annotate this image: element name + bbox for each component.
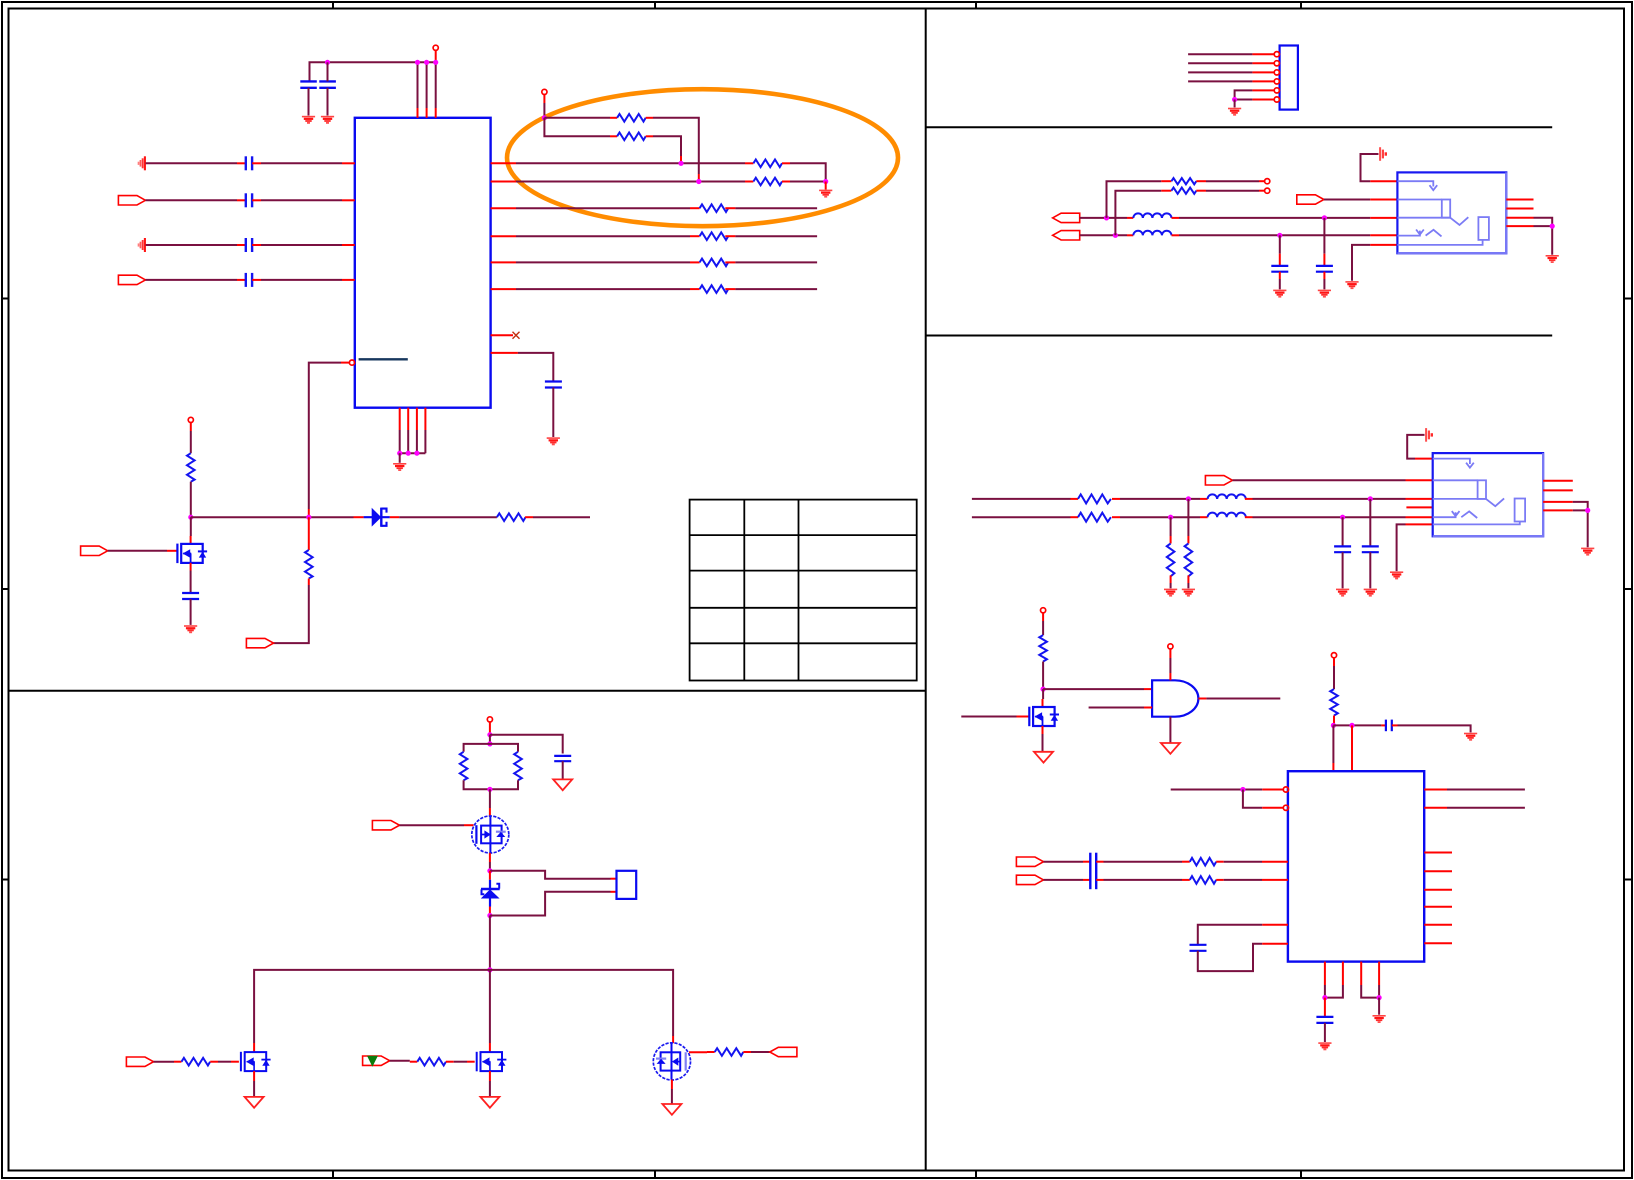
pin stub U5 top pin1	[1332, 763, 1334, 771]
resistor R2	[617, 133, 646, 141]
wire R23 upper	[1042, 621, 1044, 635]
wire VIN to fuse loop	[489, 735, 491, 744]
wire R15 to Q4 gate	[454, 1061, 467, 1063]
wire R21 pulldown feed	[1187, 499, 1189, 536]
wire enable to MOSFET node	[309, 363, 341, 509]
pin stub L1a right	[1172, 217, 1180, 219]
pin stub U5 io6	[1424, 942, 1452, 944]
capacitor C1	[300, 81, 317, 87]
wire C2 to ground	[327, 88, 329, 116]
pin circle U5 left 2	[1283, 805, 1288, 810]
wire port to U3 pin2	[1233, 479, 1406, 481]
junction U3 right gnd	[1585, 508, 1590, 513]
pin stub R24 bottom	[1333, 716, 1335, 726]
pin stub R11 top	[308, 517, 310, 550]
wire row E2	[972, 516, 1071, 518]
wire J1-2	[1188, 62, 1252, 64]
capacitor C3	[246, 156, 252, 170]
pin stub D1 anode	[354, 516, 364, 518]
pin stub Q1 drain	[190, 536, 192, 544]
pin stub R14 right	[210, 1061, 218, 1063]
pin stub U5 io3	[1424, 889, 1452, 891]
wire R20 to choke	[1120, 516, 1200, 518]
junction dots on VCC rail	[325, 60, 330, 65]
wire VCC top rail	[310, 62, 436, 81]
wire R9 feed	[190, 423, 192, 431]
pin stub R6 right	[725, 235, 735, 237]
pin stub Q3 drain	[253, 1043, 255, 1052]
choke L2a	[1208, 494, 1246, 499]
wire U3 right 3 to gnd	[1573, 502, 1588, 511]
wire U1 top pin 2	[426, 62, 428, 108]
wire R4 to termination	[790, 181, 826, 183]
capacitor C7	[545, 382, 562, 388]
ground under C15	[1364, 589, 1377, 595]
port Q5 gate	[770, 1047, 797, 1056]
junction C14 tap	[1340, 515, 1345, 520]
capacitor C8	[182, 593, 199, 599]
wire to ground	[1234, 100, 1236, 108]
pin stub C18 right	[1096, 879, 1103, 881]
pin stub U5 right 2	[1424, 807, 1447, 809]
pin circle pull-up feed	[542, 89, 547, 94]
pin stub R10 right	[525, 516, 533, 518]
pin stub C3 right	[252, 162, 261, 164]
pin stub Q6 gate	[1017, 716, 1030, 718]
wire R1 left	[544, 117, 610, 119]
pin stub Q3 gate	[231, 1061, 239, 1063]
power symbol VBUS	[1380, 147, 1386, 161]
resistor R17	[1171, 178, 1196, 184]
IC U5	[1288, 771, 1424, 961]
pin stub R21 bottom	[1187, 575, 1189, 583]
wire C6 to U1	[261, 279, 342, 281]
pin stub Q1 source	[190, 563, 192, 571]
wire fb1 to C19	[1198, 925, 1262, 945]
resistor R13 (parallel b)	[514, 752, 522, 781]
port row L2	[118, 196, 145, 205]
pin circle J1-1	[1274, 52, 1279, 57]
pin stub R8 left	[690, 288, 700, 290]
junction C13 tap	[1368, 496, 1373, 501]
junction VIN node	[487, 732, 492, 737]
pin stub Q1 gate	[167, 550, 177, 552]
wire R17 to pin circle	[1206, 180, 1259, 182]
diode D2 (TVS)	[481, 880, 500, 907]
wire pair1 to C20	[1324, 998, 1326, 1017]
wire VIN to C9	[490, 735, 563, 754]
pin stub R14 left	[174, 1061, 182, 1063]
pin stub Q5 source	[671, 1080, 673, 1089]
junction VDD node 1	[1331, 723, 1336, 728]
transistor Q6	[1029, 707, 1059, 727]
resistor R18	[1171, 188, 1196, 194]
pin stub R5 right	[725, 207, 735, 209]
wire D1 to R10	[399, 516, 497, 518]
pin stub U2 pin3	[1370, 217, 1397, 219]
pin stub choke L2a left	[1200, 498, 1208, 500]
resistor R22	[1167, 544, 1175, 577]
pin stub C6 right	[252, 279, 261, 281]
pin stub U2 right 4	[1506, 225, 1533, 227]
wire gate node horizontal	[191, 516, 354, 518]
wire anode node to output bus	[489, 916, 491, 970]
wire node to connector pin 2	[490, 892, 611, 916]
wire Q6 gate	[961, 716, 1016, 718]
wire node to Q6 drain	[1042, 689, 1044, 699]
port Q2 gate	[372, 821, 399, 830]
pin stub U2 pin1	[1370, 180, 1397, 182]
wire R25 to U5	[1224, 861, 1262, 863]
wire C11 feed	[1279, 235, 1281, 253]
wire branch to left pin 2	[1243, 790, 1262, 808]
pin stub U3 pin2	[1406, 479, 1433, 481]
wire node to AND input 1	[1043, 688, 1144, 690]
wire J1-1	[1188, 53, 1252, 55]
pin stub L2b right	[1245, 516, 1253, 518]
pin stub U5 left 1	[1262, 789, 1283, 791]
ground under R22	[1164, 589, 1177, 595]
pin stub R16 left	[707, 1051, 715, 1053]
wire pull-up feed down	[543, 95, 545, 103]
wire R16 to port	[751, 1051, 770, 1053]
U1 bottom pin 4	[424, 408, 426, 430]
ground under C20	[1318, 1043, 1331, 1049]
power symbol VBUS2	[1426, 428, 1432, 442]
pin circle U1 enable	[349, 360, 354, 365]
pin stub R19 left	[1071, 498, 1079, 500]
wire Q6 source to ground	[1042, 734, 1044, 752]
wire Q3 source to ground	[253, 1081, 255, 1097]
junction pull-up node	[542, 115, 547, 120]
wire U3 gnd pin	[1397, 524, 1406, 571]
wire Q5 gate to R16	[689, 1051, 707, 1053]
pin stub U5 io4	[1424, 906, 1452, 908]
U3 internal graphics	[1433, 459, 1525, 525]
pin stub J1-5	[1252, 89, 1274, 91]
wire node to Q1 drain	[190, 517, 192, 536]
wire C12 to ground	[1323, 272, 1325, 279]
junction C11 tap	[1277, 233, 1282, 238]
wire C2 feed	[327, 62, 329, 81]
junction output bus	[487, 967, 492, 972]
diode D1	[364, 508, 390, 527]
U5 bottom pin 1	[1324, 962, 1326, 985]
resistor R23	[1039, 635, 1047, 661]
pin circle pull-up R23	[1041, 608, 1046, 613]
capacitor C6	[246, 273, 252, 287]
ground under C7	[547, 438, 560, 444]
pin stub U1 row R5	[491, 261, 516, 263]
resistor R14	[182, 1058, 211, 1066]
no-connect X mark	[513, 332, 520, 339]
capacitor C17	[1090, 853, 1096, 871]
pin stub choke L1a left	[1127, 217, 1133, 219]
ground triangle Q3	[245, 1097, 264, 1108]
wire VIN down	[489, 722, 491, 735]
choke L2b	[1208, 513, 1246, 518]
wire C14 feed	[1342, 517, 1344, 546]
wire U5 top pin1	[1332, 725, 1334, 763]
junction Q6 drain node	[1041, 687, 1046, 692]
pin circle pull-up R24	[1331, 653, 1336, 658]
pin stub J1-2	[1252, 62, 1274, 64]
connector J2	[617, 871, 637, 899]
junction row E1	[1186, 496, 1191, 501]
capacitor C15	[1362, 546, 1379, 552]
transistor Q5 (circle)	[653, 1043, 690, 1080]
resistor R15	[417, 1058, 446, 1066]
IC U1	[355, 118, 491, 408]
pin stub U5 io2	[1424, 870, 1452, 872]
pin stub U2 right 1	[1506, 199, 1533, 201]
wire C3 to U1	[261, 162, 342, 164]
stub R2 drop	[680, 156, 682, 163]
wire R11 to port	[274, 585, 309, 643]
wire port to C18	[1044, 879, 1084, 881]
wire port to Q1 gate	[108, 550, 167, 552]
U1 bottom pin 1	[399, 408, 401, 430]
pin stub R8 right	[725, 288, 735, 290]
pin stub R7 left	[690, 261, 700, 263]
ground triangle U4	[1161, 743, 1180, 754]
ground triangle Q4	[480, 1097, 499, 1108]
wire VDD rail	[1333, 724, 1381, 726]
transistor Q1	[177, 544, 207, 564]
pin stub R18 left	[1161, 190, 1171, 192]
pin stub R11 bottom	[308, 579, 310, 586]
pin stub U2 right 3	[1506, 217, 1533, 219]
pin stub U5 fb 1	[1262, 924, 1288, 926]
gate U4 (AND)	[1152, 680, 1198, 716]
pin stub U3 pin1	[1415, 458, 1433, 460]
U5 bottom pin 4	[1378, 962, 1380, 985]
pin stub D1 cathode	[390, 516, 399, 518]
wire R22 to ground	[1170, 583, 1172, 588]
wire U3 right 4 to gnd	[1573, 510, 1588, 547]
pin stub R25 left	[1182, 861, 1190, 863]
pin circle J1-6	[1274, 97, 1279, 102]
pin stub J2 pin 1	[611, 878, 617, 880]
pin stub C4 left	[237, 199, 246, 201]
ground under C11	[1273, 290, 1286, 296]
wire bottom bus to ground	[399, 453, 401, 463]
wire R18 to pin circle	[1206, 190, 1259, 192]
pin stub R22 bottom	[1170, 575, 1172, 583]
pin circle J1-5	[1274, 88, 1279, 93]
capacitor C12	[1316, 266, 1333, 272]
wire C7 to ground	[552, 388, 554, 438]
pin circle U4 power	[1168, 644, 1173, 649]
wire Q4 source to ground	[489, 1081, 491, 1097]
wire output bus	[254, 970, 673, 1043]
wire R26 to U5	[1224, 879, 1262, 881]
wire R23 lower	[1042, 662, 1044, 690]
resistor R26	[1190, 876, 1216, 884]
pin stub R20 left	[1071, 516, 1079, 518]
wire U5 right 2	[1447, 807, 1525, 809]
wire pin circle to rail	[435, 51, 437, 63]
wire row R6 end	[735, 288, 817, 290]
junction loop top	[487, 741, 492, 746]
pin stub R17 right	[1196, 180, 1206, 182]
ground triangle Q5	[662, 1104, 681, 1115]
wire C20 to ground	[1324, 1023, 1326, 1042]
wire R23 feed	[1042, 613, 1044, 621]
wire U4 power	[1169, 649, 1171, 658]
wire J1-6	[1235, 99, 1253, 101]
wire pull-up node	[543, 103, 545, 118]
U1 bottom pin 3	[416, 408, 418, 430]
wire C11 to ground	[1279, 272, 1281, 279]
pin stub R19 right	[1112, 498, 1120, 500]
wire C1 to ground	[308, 88, 310, 116]
pin stub Q2 source	[489, 853, 491, 862]
pin stub Q2 gate	[464, 824, 474, 826]
port low-side	[246, 638, 273, 647]
pin stub C17 left	[1083, 861, 1090, 863]
pin stub Q3 source	[253, 1071, 255, 1081]
pin stub U5 clk n	[1262, 879, 1288, 881]
port D- out	[1053, 231, 1080, 240]
ground under J1	[1228, 109, 1241, 115]
pin stub U1 row R1	[491, 162, 516, 164]
wire L1a to U2	[1179, 217, 1370, 219]
wire U5 top pin2	[1351, 725, 1353, 763]
pin stub C6 left	[237, 279, 246, 281]
pin stub C5 left	[237, 244, 246, 246]
pin stub U5 right 1	[1424, 789, 1447, 791]
pin stub R2 left	[610, 135, 617, 137]
junction loop bottom	[487, 787, 492, 792]
pin circle VIN	[487, 717, 492, 722]
wire R10 end	[533, 516, 590, 518]
wire C15 feed	[1369, 499, 1371, 547]
junction termination	[823, 179, 828, 184]
pin stub AND input 2	[1144, 707, 1152, 709]
resistor R1	[617, 114, 646, 122]
wire gnd pin	[1352, 245, 1370, 281]
junction R9 node	[188, 515, 193, 520]
pin stub U2 right 2	[1506, 208, 1533, 210]
wire port to U2 pin2	[1324, 199, 1370, 201]
pin stub Q6 drain	[1042, 699, 1044, 707]
stub to circle	[1259, 180, 1265, 182]
ground triangle Q6	[1034, 752, 1053, 763]
pin stub J1-4	[1252, 80, 1274, 82]
wire Q1 source to C8	[190, 571, 192, 594]
wire R3 to termination	[790, 163, 826, 181]
pin stub U1 top pin 2	[426, 108, 428, 118]
pin stub U2 pin2	[1370, 199, 1397, 201]
capacitor C16	[1386, 720, 1392, 732]
resistor R12 (parallel a)	[460, 752, 468, 781]
wire row R4 end	[735, 235, 817, 237]
pin circle pull-up b	[1265, 188, 1270, 193]
wire U2 right 3 to gnd	[1534, 218, 1553, 226]
wire row R3 end	[735, 207, 817, 209]
resistor R19	[1078, 494, 1111, 503]
ground U3 gnd pin	[1390, 572, 1403, 578]
stub R1 drop	[698, 174, 700, 182]
pin stub enable	[341, 362, 349, 364]
junction bottom pair 2	[1377, 995, 1382, 1000]
pin circle pull-up R9	[188, 417, 193, 422]
pin stub R4 right	[782, 181, 790, 183]
ground-left symbol row L1	[139, 156, 145, 170]
pin stub R1 right	[646, 117, 653, 119]
pin stub R18 right	[1196, 190, 1206, 192]
resistor R3	[753, 160, 782, 168]
pin circle J1-4	[1274, 79, 1279, 84]
resistor R16	[715, 1048, 744, 1056]
ground under C2	[321, 117, 334, 123]
ground triangle under C9	[553, 779, 572, 790]
pin stub R16 right	[743, 1051, 751, 1053]
resistor R7	[700, 259, 729, 267]
stub to circle	[1259, 190, 1265, 192]
pin stub C16 left	[1381, 724, 1386, 726]
pin stub U4 output	[1198, 698, 1206, 700]
pin stub R3 left	[745, 162, 753, 164]
capacitor C2	[319, 81, 336, 87]
wire J1-5	[1235, 90, 1253, 99]
pin stub D2 cathode	[489, 871, 491, 880]
wire row R5	[516, 261, 690, 263]
pin stub U5 left 2	[1262, 807, 1283, 809]
pin stub R4 left	[745, 181, 753, 183]
pin stub Q4 drain	[489, 1043, 491, 1052]
wire loop to Q2 drain	[489, 789, 491, 808]
capacitor C11	[1271, 266, 1288, 272]
pin stub R2 right	[646, 135, 653, 137]
pin circle pull-up a	[1265, 179, 1270, 184]
pin stub R7 right	[725, 261, 735, 263]
junction bottom pin 2	[406, 451, 411, 456]
wire R9 lower	[190, 482, 192, 518]
wire C4 to U1	[261, 199, 342, 201]
U5 bottom pin 2	[1342, 962, 1344, 985]
wire Q2 source to node	[489, 862, 491, 871]
pin stub U3 pin6	[1406, 523, 1433, 525]
wire pair2 to ground	[1378, 998, 1380, 1015]
resistor R8	[700, 285, 729, 293]
pin stub AND input 1	[1144, 688, 1152, 690]
junction row E2	[1168, 515, 1173, 520]
junction C10 tap	[1322, 215, 1327, 220]
wire R21 to ground	[1187, 583, 1189, 588]
pin stub U1 row L2	[342, 199, 355, 201]
wire U5 left 1	[1171, 789, 1263, 791]
choke L1a	[1133, 213, 1171, 218]
pin stub U1 row L1	[342, 162, 355, 164]
capacitor C19	[1190, 945, 1207, 951]
wire R2 to row R1	[653, 136, 681, 156]
pin stub choke L2b left	[1200, 516, 1208, 518]
U1 bottom pin 2	[407, 408, 409, 430]
wire D+	[1080, 217, 1127, 219]
pin stub U5 fb 2	[1262, 943, 1288, 945]
connector J1	[1280, 46, 1298, 110]
U2 internal graphics	[1397, 181, 1489, 245]
wire C16 to ground	[1398, 725, 1471, 732]
ground under C8	[184, 626, 197, 632]
wire bottom pins bus	[400, 430, 426, 453]
wire L1b to U2	[1179, 234, 1370, 236]
pin circle J1-2	[1274, 61, 1279, 66]
pin stub R26 left	[1182, 879, 1190, 881]
resistor R20	[1078, 513, 1111, 522]
